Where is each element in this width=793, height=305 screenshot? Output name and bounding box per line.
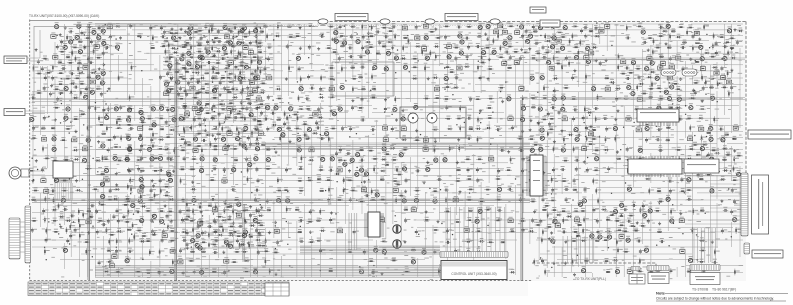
transistor Q263 [113,154,117,161]
inductor L112 [198,42,202,46]
module U96 [727,78,732,84]
capacitor C383 [213,218,219,223]
wire stage row [180,222,265,224]
capacitor C92 [615,97,621,102]
ground [285,77,288,80]
diode D49 [95,157,101,162]
capacitor C231 [298,217,303,222]
diode D121 [168,74,174,79]
ground [213,54,216,57]
transistor Q239 [152,212,156,219]
node label box SP [4,109,25,116]
resistor R384 [200,239,207,243]
ground [616,150,619,153]
module U80 [494,28,499,34]
module U2 [402,24,407,30]
resistor R480 [239,70,245,77]
diode D124 [254,140,260,145]
resistor R605 [124,196,131,200]
ground [64,26,67,29]
resistor R511 [284,111,290,118]
capacitor C235 [539,219,545,224]
resistor R283 [130,186,136,193]
ground [395,118,398,121]
capacitor C252 [597,229,603,234]
wire stage row [163,44,263,46]
resistor R479 [174,69,181,73]
resistor R518 [547,131,553,138]
resistor R257 [593,167,600,171]
transistor Q107 [148,145,152,152]
resistor R183 [222,125,228,132]
capacitor C154 [574,157,579,162]
resistor R17 [678,24,685,28]
diode D43 [401,136,407,141]
module U113 [227,105,232,111]
capacitor C120 [129,125,134,130]
resistor R512 [292,111,299,115]
inductor L3 [137,33,141,37]
capacitor C314 [166,71,172,76]
capacitor C342 [346,150,351,155]
capacitor C308 [88,59,93,64]
wire [95,270,440,272]
capacitor C296 [206,39,212,44]
resistor R182 [212,126,219,130]
ground [679,212,682,215]
capacitor C110 [263,115,268,120]
wire [486,207,488,252]
transistor Q58 [677,95,681,102]
resistor R361 [106,227,112,234]
module U61 [138,187,143,193]
transistor Q202 [206,48,210,55]
diode D19 [432,74,438,79]
capacitor C117 [660,116,666,121]
wire from J1 [29,171,45,175]
transistor Q186 [187,29,191,35]
resistor R13 [551,23,557,30]
resistor R163 [244,115,250,122]
wire from MIC box [27,30,40,61]
module U23 [267,74,272,80]
module U60 [44,187,49,193]
inductor L91 [78,60,82,64]
capacitor C93 [88,105,94,110]
inductor L58 [267,207,271,211]
capacitor C87 [56,97,62,102]
module U35 [562,115,567,121]
capacitor C337 [303,131,308,136]
capacitor C288 [163,30,169,35]
inductor choke oval4 [490,19,500,24]
resistor R96 [74,75,81,79]
capacitor C108 [233,114,238,119]
resistor R247 [28,168,35,172]
capacitor C104 [43,116,49,121]
inductor L33 [51,125,55,129]
module U111 [255,74,260,80]
capacitor C250 [522,228,528,233]
diode D119 [228,232,234,237]
capacitor C305 [504,48,509,53]
resistor R573 [210,66,217,70]
diode D105 [271,122,277,127]
resistor R370 [572,229,579,233]
resistor R199 [328,136,334,143]
capacitor C74 [638,75,644,80]
resistor R14 [572,23,579,27]
resistor R9 [381,25,388,29]
resistor R415 [533,259,539,266]
resistor R343 [51,218,58,222]
inductor L63 [700,208,704,212]
wire [300,251,440,253]
resistor R167 [445,116,452,120]
resistor R464 [578,49,584,56]
wire stage row [96,136,174,138]
resistor R620 [256,242,263,246]
module U11 [422,45,427,51]
ground [542,171,545,174]
transistor Q187 [334,28,338,34]
capacitor C360 [226,26,231,31]
capacitor C241 [96,229,102,234]
transistor Q230 [706,160,710,167]
resistor R337 [640,207,646,214]
transistor Q103 [709,135,713,142]
capacitor C124 [349,126,355,131]
module IC U25 DIP [530,155,543,196]
transistor Q232 [364,170,368,177]
wire interconnect mesh horizontal [32,24,743,273]
resistor R250 [247,167,253,174]
resistor R562 [239,242,245,249]
resistor R428 [637,268,644,272]
diode D118 [217,232,223,237]
capacitor C163 [255,167,261,172]
inductor L121 [185,217,189,221]
resistor R472 [479,59,486,63]
resistor R232 [116,157,123,161]
transistor Q216 [164,80,168,87]
node label box bottom right [752,250,783,258]
ground [31,179,34,182]
wire stage row [96,124,174,126]
transistor Q234 [375,191,379,198]
module U26 [190,84,195,90]
resistor R195 [179,136,186,140]
capacitor C172 [552,167,558,172]
wire [584,236,586,263]
resistor R142 [623,96,630,100]
module U103 [258,130,263,136]
wire [32,201,530,203]
resistor R161 [158,115,165,119]
resistor R491 [672,81,679,85]
resistor R5 [307,23,314,27]
capacitor C327 [260,111,266,116]
resistor R169 [477,117,483,124]
resistor R118 [636,84,642,91]
diode D75 [479,238,485,243]
resistor R235 [301,155,307,162]
transistor Q159 [160,217,164,224]
transistor Q208 [187,59,191,66]
capacitor C289 [217,29,223,34]
transistor Q55 [552,95,556,102]
resistor R391 [541,237,547,244]
module U94 [90,78,95,84]
transistor Q71 [538,105,542,112]
resistor R112 [254,84,261,88]
resistor R611 [241,207,248,211]
inductor L107 [186,214,190,218]
diode D26 [73,94,79,99]
resistor R412 [265,258,271,265]
resistor R414 [391,257,398,261]
capacitor C361 [184,43,190,48]
transistor Q180 [253,268,257,275]
capacitor C364 [182,52,188,57]
capacitor C279 [158,270,164,275]
transistor Q29 [296,54,300,61]
inductor L31 [277,117,281,121]
resistor R61 [95,55,102,59]
capacitor C165 [328,167,333,172]
diode D37 [169,127,175,132]
capacitor C344 [697,173,703,178]
capacitor C222 [623,206,628,211]
inductor L84 [78,39,82,43]
resistor R254 [373,166,379,173]
module U66 [411,206,416,212]
ground [317,47,320,50]
diode D78 [475,248,481,253]
capacitor C89 [305,95,310,100]
transistor Q39 [403,63,407,70]
resistor R280 [32,187,39,191]
diode D84 [737,28,743,33]
resistor R418 [639,258,645,265]
wire stage row [163,80,263,82]
transistor Q93 [52,135,56,142]
resistor R525 [725,152,732,156]
capacitor C355 [101,221,106,226]
diode D51 [308,157,314,162]
capacitor C9 [415,25,421,30]
resistor R447 [580,39,586,46]
resistor R435 [238,29,244,36]
resistor R301 [686,187,693,191]
module U17 [83,63,88,69]
resistor R554 [109,232,116,236]
transistor Q69 [414,103,418,110]
capacitor C134 [201,137,206,142]
transistor Q184 [92,28,96,34]
capacitor C207 [519,197,525,202]
resistor R584 [210,115,217,119]
transistor Q227 [399,150,403,157]
resistor R499 [197,89,204,93]
resistor R308 [358,198,365,202]
resistor R3 [255,25,261,32]
resistor R306 [148,197,155,201]
resistor R421 [135,269,142,273]
resistor R117 [563,85,570,89]
ground [381,272,384,275]
resistor R463 [544,49,551,53]
inductor L94 [205,70,209,74]
resistor R422 [145,270,152,274]
resistor R143 [658,96,665,100]
inductor L108 [219,224,223,228]
diode D59 [645,176,651,181]
wire [58,183,60,200]
transistor Q3 [189,24,193,31]
connector strip option a [647,266,669,271]
wire [67,183,69,200]
wire stage row [180,210,265,212]
transistor Q199 [526,37,530,44]
ground [647,48,650,51]
transistor Q244 [608,233,612,240]
resistor R309 [370,197,377,201]
ground [384,98,387,101]
wire [32,200,530,202]
capacitor C196 [551,188,557,193]
wire [463,207,465,252]
resistor R172 [548,116,555,120]
resistor R540 [618,213,625,217]
resistor R461 [522,49,529,53]
inductor L78 [606,269,610,273]
capacitor C59 [234,64,240,69]
resistor R382 [145,238,152,242]
resistor R124 [178,96,185,100]
module U37 [138,125,143,131]
transistor Q105 [52,145,56,152]
transistor Q250 [168,61,172,68]
transistor Q100 [297,135,301,142]
module U30 [605,85,610,91]
capacitor C45 [221,55,226,60]
wire [174,58,176,281]
capacitor C375 [113,135,119,140]
resistor R376 [692,227,698,234]
resistor R601 [153,155,160,159]
resistor R549 [546,224,553,228]
capacitor C324 [240,90,246,95]
transistor Q116 [82,156,86,163]
node label box MIC [4,56,27,64]
inductor L29 [635,106,639,110]
resistor R121 [675,86,682,90]
resistor R237 [391,157,398,161]
resistor R351 [454,219,461,223]
resistor R438 [429,29,436,33]
transistor Q57 [667,94,671,101]
resistor R565 [168,30,175,34]
diode D98 [70,80,76,85]
transistor Q166 [191,236,195,243]
diode D13 [224,65,230,70]
resistor R386 [308,239,315,243]
module U44 [72,136,77,142]
module label box ant [748,130,791,139]
module option box a [648,273,669,284]
capacitor C386 [258,230,264,235]
diode D67 [65,217,71,222]
resistor R524 [384,151,391,155]
resistor R58 [712,43,718,50]
capacitor C43 [723,43,728,48]
ground [484,32,487,35]
resistor R559 [235,233,242,237]
transistor Q204 [386,49,390,56]
capacitor C79 [223,86,229,91]
module U90 [514,59,519,65]
diode D114 [258,212,264,217]
inductor T3 coil a [408,113,418,123]
resistor R192 [60,137,67,141]
capacitor C274 [466,248,471,253]
diode D48 [73,156,79,161]
inductor L100 [707,130,711,134]
module option box b [690,273,720,285]
capacitor C263 [636,237,641,242]
resistor R430 [655,268,662,272]
capacitor C228 [170,219,176,224]
transistor Q164 [733,215,737,222]
resistor R7 [362,23,368,30]
resistor R488 [79,81,86,85]
capacitor C23 [444,35,450,40]
inductor L86 [683,40,687,44]
module U1 [107,23,112,29]
resistor R29 [338,33,345,37]
capacitor C363 [225,38,230,43]
resistor R564 [260,243,267,247]
wire channel right a [532,58,745,60]
transistor Q59 [710,94,714,101]
module U49 [193,147,198,153]
resistor R441 [173,38,180,42]
inductor L69 [501,239,505,243]
capacitor C129 [585,125,591,130]
module U9 [94,42,99,48]
capacitor C177 [668,165,673,170]
inductor L61 [468,208,472,212]
transistor Q42 [253,74,257,81]
ground [179,36,182,39]
resistor R344 [78,217,84,224]
wire [468,207,470,252]
ground [254,69,257,72]
transistor Q50 [592,84,596,91]
resistor R98 [178,74,185,78]
capacitor C271 [363,249,369,254]
resistor R516 [238,130,244,137]
capacitor C61 [298,66,304,71]
module U98 [248,90,253,96]
transistor Q26 [699,43,703,50]
wire stage row [96,198,174,200]
ground [102,63,105,66]
resistor R209 [701,135,707,142]
transistor Q51 [627,83,631,90]
transistor Q188 [641,28,645,34]
